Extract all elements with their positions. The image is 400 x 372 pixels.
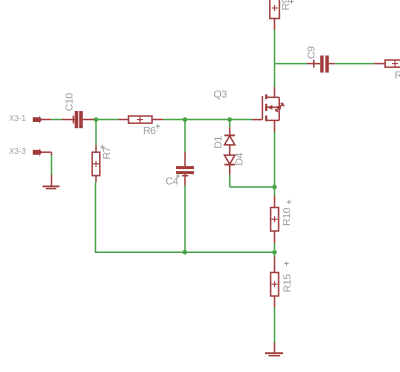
svg-text:R9: R9 (280, 0, 292, 11)
svg-text:X3-3: X3-3 (9, 147, 26, 156)
svg-text:C4: C4 (166, 176, 179, 188)
svg-text:X3-1: X3-1 (9, 114, 26, 123)
svg-text:D1: D1 (212, 136, 224, 149)
svg-text:R11: R11 (395, 70, 400, 82)
svg-text:R15: R15 (282, 274, 294, 293)
svg-text:C10: C10 (64, 93, 76, 112)
svg-text:R6: R6 (143, 125, 156, 137)
svg-text:R7: R7 (101, 146, 113, 159)
svg-text:Q3: Q3 (214, 89, 228, 101)
svg-text:R10: R10 (281, 207, 293, 226)
svg-text:C9: C9 (306, 46, 318, 59)
svg-text:D4: D4 (234, 152, 246, 165)
